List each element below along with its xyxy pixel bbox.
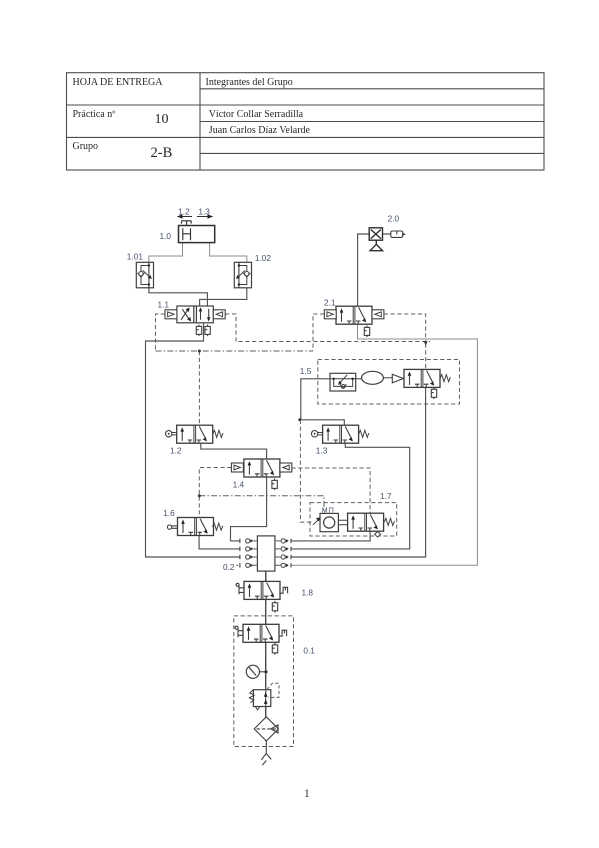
svg-text:1.3: 1.3 xyxy=(198,206,210,216)
svg-text:2.1: 2.1 xyxy=(324,298,336,308)
svg-text:1.4: 1.4 xyxy=(233,480,245,490)
svg-text:2.0: 2.0 xyxy=(388,213,400,223)
svg-text:1.1: 1.1 xyxy=(158,300,170,310)
svg-text:1.02: 1.02 xyxy=(255,253,272,263)
svg-text:1.6: 1.6 xyxy=(163,508,175,518)
svg-text:ΜΠ: ΜΠ xyxy=(322,507,335,514)
svg-text:1.3: 1.3 xyxy=(316,446,328,456)
svg-text:1.8: 1.8 xyxy=(302,588,314,598)
svg-text:0.1: 0.1 xyxy=(303,645,315,655)
svg-text:1.2: 1.2 xyxy=(170,446,182,456)
svg-text:1.01: 1.01 xyxy=(127,252,144,262)
svg-text:0.2: 0.2 xyxy=(223,562,235,572)
svg-text:1.0: 1.0 xyxy=(160,231,172,241)
svg-text:1.5: 1.5 xyxy=(300,366,312,376)
svg-text:1.2: 1.2 xyxy=(178,206,190,216)
svg-text:1.7: 1.7 xyxy=(380,491,392,501)
